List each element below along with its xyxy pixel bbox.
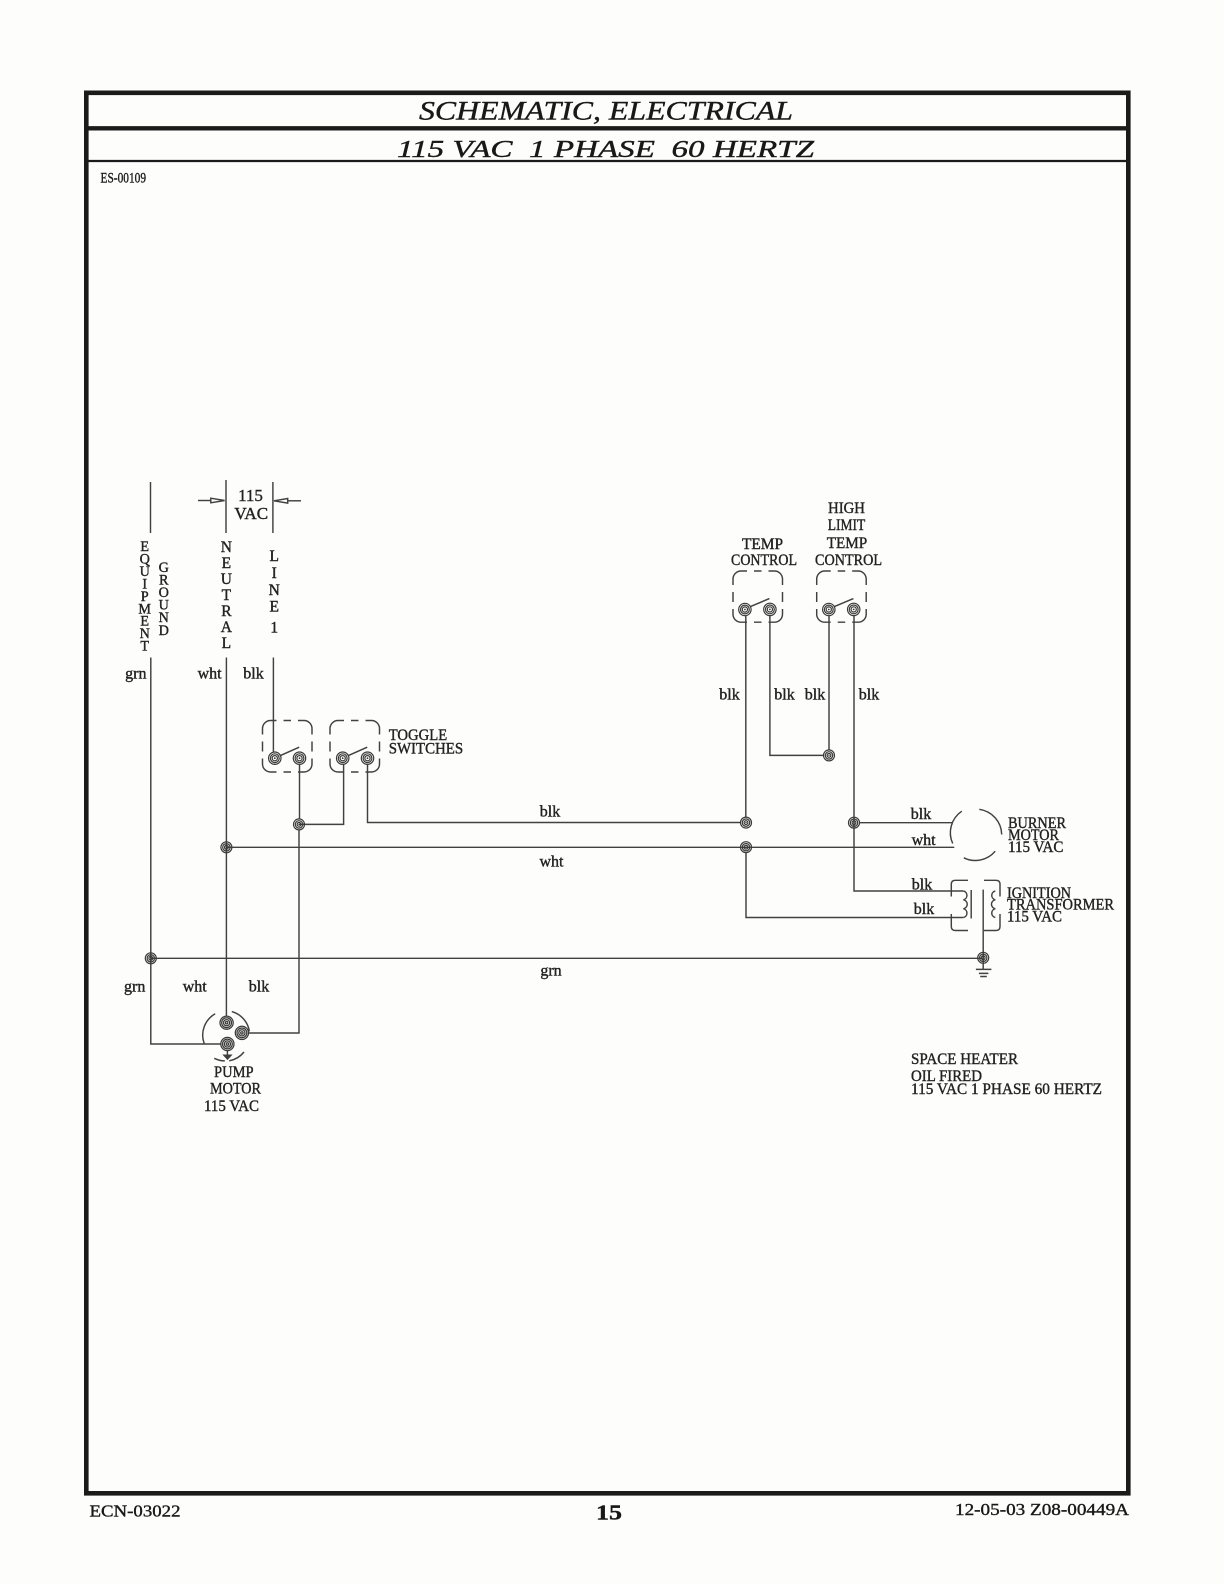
wire equipment ground bus (upper stub) [150,482,152,533]
svg-text:blk: blk [911,806,931,823]
svg-text:blk: blk [719,687,739,704]
pump motor wht terminal [220,1016,233,1029]
junction node: high limit output to burner and transformer [849,817,860,828]
ground symbol below ignition transformer [976,969,992,976]
pump motor M2 rotation arrow [224,1051,231,1059]
svg-text:115 VAC 1 PHASE 60 HERTZ: 115 VAC 1 PHASE 60 HERTZ [397,137,815,163]
wire wht run from neutral to burner motor [226,846,954,848]
svg-text:115 VAC 1 PHASE 60 HERTZ: 115 VAC 1 PHASE 60 HERTZ [911,1081,1102,1098]
wire blk drop from junction down to pump motor [248,830,299,1033]
wire line 1 bus (lower run to toggle switch) [272,658,274,752]
svg-text:115: 115 [238,486,263,505]
dimension leader left with arrowhead [198,500,211,502]
temp control switch arm [750,599,770,607]
wire from S2 right terminal down then right (blk feed) [368,765,741,823]
svg-text:TEMP: TEMP [827,535,868,552]
svg-text:blk: blk [914,901,934,918]
junction node: wht run to transformer drop [741,842,752,853]
toggle switch S2 right terminal [361,752,373,764]
svg-text:SPACE HEATER: SPACE HEATER [911,1051,1018,1068]
temp control right terminal [764,603,776,615]
subtitle band divider (thin) [84,160,1131,162]
wire wht node drop to transformer primary lower terminal [746,853,963,918]
svg-text:blk: blk [540,804,560,821]
wire neutral bus (upper stub) [225,480,227,533]
svg-text:EQUIPMENT: EQUIPMENT [138,539,151,655]
burner motor M1 circle (left arc) [950,811,961,843]
toggle switch S1 left terminal [269,752,281,764]
pump motor M2 circle (top left arc) [203,1014,215,1044]
ignition transformer T1 secondary bracket [984,880,1000,930]
high limit temp control switch dashed enclosure [817,571,867,622]
wire temp control right terminal down and over to high limit left terminal [770,616,824,756]
wire blk node to burner motor [860,822,953,824]
wire from S1 right terminal down to junction [299,765,301,820]
svg-text:blk: blk [859,687,879,704]
dimension leader right with arrowhead [288,500,301,502]
wire transformer core ground drop [982,890,984,970]
burner motor M1 circle (bottom arc) [964,851,995,860]
svg-text:LIMIT: LIMIT [828,517,866,534]
svg-text:HIGH: HIGH [828,500,865,517]
svg-text:LINE1: LINE1 [269,548,280,637]
svg-text:blk: blk [805,687,825,704]
high limit right terminal [848,603,860,615]
svg-text:15: 15 [596,1501,622,1525]
svg-text:wht: wht [912,832,937,849]
toggle switch S2 arm [348,747,367,756]
svg-text:115 VAC: 115 VAC [1008,839,1064,856]
svg-text:wht: wht [540,854,565,871]
svg-text:MOTOR: MOTOR [210,1080,261,1097]
svg-text:VAC: VAC [234,504,268,523]
junction node: equipment ground to grn run [145,953,156,964]
ignition transformer T1 secondary coil [991,891,995,918]
ignition transformer T1 primary coil [963,891,967,918]
svg-text:blk: blk [249,979,269,996]
high limit temp control switch arm [834,599,854,607]
svg-text:wht: wht [198,666,223,683]
wire junction to S2 left terminal [299,765,344,825]
junction node: temp control to high limit series [824,750,835,761]
wire from temp control left terminal down to blk node [745,616,747,817]
temp control left terminal [739,603,751,615]
svg-text:PUMP: PUMP [214,1064,254,1081]
pump motor M2 circle (top right arc) [232,1012,250,1032]
ignition transformer T1 core [970,890,972,919]
toggle switch S1 arm [280,747,299,756]
svg-text:blk: blk [774,687,794,704]
svg-text:115 VAC: 115 VAC [204,1098,259,1115]
border frame of drawing sheet [86,93,1128,1494]
pump motor M2 circle (bottom right arc) [229,1052,244,1061]
junction node: S1 output to pump and S2 feed [294,819,305,830]
svg-text:grn: grn [125,666,146,683]
svg-text:wht: wht [183,979,208,996]
svg-text:12-05-03 Z08-00449A: 12-05-03 Z08-00449A [955,1500,1129,1519]
wire equipment ground bus (lower run, to grn node and pump motor) [151,658,221,1045]
wire neutral bus (lower run to pump motor) [225,658,227,1017]
wire high limit right terminal down to burner node and on to transformer primary [854,616,963,891]
pump motor grn terminal [221,1037,234,1050]
svg-text:CONTROL: CONTROL [815,552,882,569]
svg-text:NEUTRAL: NEUTRAL [221,539,233,652]
svg-text:ES-00109: ES-00109 [101,171,147,187]
toggle switch S1 dashed enclosure [263,721,313,773]
title band divider (thick) [84,126,1131,130]
toggle switch S2 left terminal [337,752,349,764]
burner motor M1 circle (top right arc) [979,809,1001,834]
junction node: neutral to wht run [221,842,232,853]
svg-text:blk: blk [243,666,263,683]
svg-text:CONTROL: CONTROL [731,552,797,569]
pump motor M2 circle (bottom left arc) [214,1058,225,1061]
svg-text:115 VAC: 115 VAC [1007,908,1062,925]
svg-text:SWITCHES: SWITCHES [389,741,464,758]
pump motor blk terminal [235,1026,248,1039]
ignition transformer T1 primary bracket [951,880,968,930]
svg-text:blk: blk [912,877,932,894]
svg-text:TEMP: TEMP [742,536,783,553]
svg-text:SCHEMATIC, ELECTRICAL: SCHEMATIC, ELECTRICAL [419,96,793,126]
temp control switch dashed enclosure [733,571,783,622]
toggle switch S2 dashed enclosure [330,721,380,773]
wire line 1 bus (upper stub) [272,482,274,533]
wire grn run from equipment ground to ignition transformer ground [151,957,983,959]
wire high limit left terminal down to series node [828,616,830,750]
high limit left terminal [823,603,835,615]
svg-text:grn: grn [540,963,561,980]
toggle switch S1 right terminal [293,752,305,764]
junction node: grn run at transformer ground [978,952,989,963]
junction node: blk feed at temp control [741,817,752,828]
svg-text:grn: grn [124,979,145,996]
svg-text:ECN-03022: ECN-03022 [90,1502,181,1521]
svg-text:GROUND: GROUND [159,560,169,639]
